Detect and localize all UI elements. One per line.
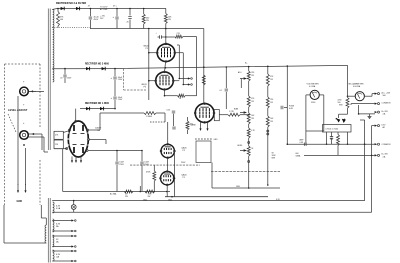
svg-text:CT101 CT102: CT101 CT102: [326, 129, 339, 131]
svg-text:0.68: 0.68: [300, 142, 304, 144]
svg-text:COMMON: COMMON: [382, 102, 391, 104]
svg-text:B+ 45V: B+ 45V: [382, 154, 389, 156]
svg-text:GND: GND: [214, 139, 219, 141]
svg-text:10: 10: [179, 98, 181, 100]
svg-text:0.68: 0.68: [289, 108, 293, 110]
svg-text:250V: 250V: [118, 99, 123, 101]
svg-text:2W: 2W: [251, 118, 254, 120]
svg-text:450V: 450V: [94, 19, 99, 21]
svg-text:WW: WW: [339, 104, 343, 106]
svg-text:COMMON: COMMON: [382, 144, 391, 146]
svg-text:20: 20: [127, 22, 129, 24]
svg-text:9D30: 9D30: [311, 102, 315, 104]
svg-text:4.5A: 4.5A: [56, 207, 61, 210]
svg-text:GND: GND: [236, 186, 241, 188]
svg-text:0.1: 0.1: [220, 90, 223, 92]
svg-text:1W: 1W: [270, 121, 273, 123]
svg-text:GND: GND: [168, 199, 173, 201]
svg-text:RECTIFIER NO 3 & FILTER: RECTIFIER NO 3 & FILTER: [56, 2, 86, 5]
svg-text:LEVEL: LEVEL: [237, 145, 243, 147]
svg-text:0-1 MA: 0-1 MA: [309, 85, 316, 88]
svg-text:0.05: 0.05: [167, 110, 171, 112]
svg-text:6AN8: 6AN8: [191, 124, 197, 127]
svg-text:RECTIFIER NO 2 4800: RECTIFIER NO 2 4800: [85, 62, 110, 65]
svg-text:1W: 1W: [168, 19, 171, 21]
svg-text:RECTIFIER NO 1 4800: RECTIFIER NO 1 4800: [85, 102, 110, 105]
svg-text:GND: GND: [143, 199, 148, 201]
svg-text:470K: 470K: [146, 172, 151, 174]
svg-text:1 MEG: 1 MEG: [146, 116, 153, 118]
svg-text:AC BAL: AC BAL: [110, 193, 117, 196]
svg-text:ADJ: ADJ: [238, 71, 241, 74]
svg-text:2W: 2W: [148, 196, 151, 198]
svg-text:1.27K: 1.27K: [229, 111, 235, 113]
svg-text:0-50 MA: 0-50 MA: [353, 85, 361, 88]
svg-text:1W: 1W: [251, 101, 254, 103]
svg-text:2W: 2W: [125, 196, 128, 198]
svg-text:47 u: 47 u: [113, 5, 117, 7]
svg-text:250V: 250V: [181, 162, 186, 164]
svg-text:500: 500: [383, 95, 386, 97]
svg-text:1W: 1W: [270, 79, 273, 81]
svg-text:AC LINE: AC LINE: [100, 8, 108, 11]
svg-text:WW: WW: [272, 158, 276, 160]
svg-text:GND: GND: [17, 200, 23, 203]
svg-text:20: 20: [60, 78, 62, 80]
svg-text:50MA: 50MA: [296, 154, 301, 157]
svg-text:1W: 1W: [251, 75, 254, 77]
svg-text:MILLIAMMETER: MILLIAMMETER: [349, 82, 365, 85]
svg-text:250V: 250V: [119, 164, 124, 166]
svg-text:1W: 1W: [270, 102, 273, 104]
svg-text:250V: 250V: [67, 78, 72, 80]
svg-text:2W: 2W: [146, 20, 149, 22]
svg-text:250V: 250V: [118, 79, 123, 81]
